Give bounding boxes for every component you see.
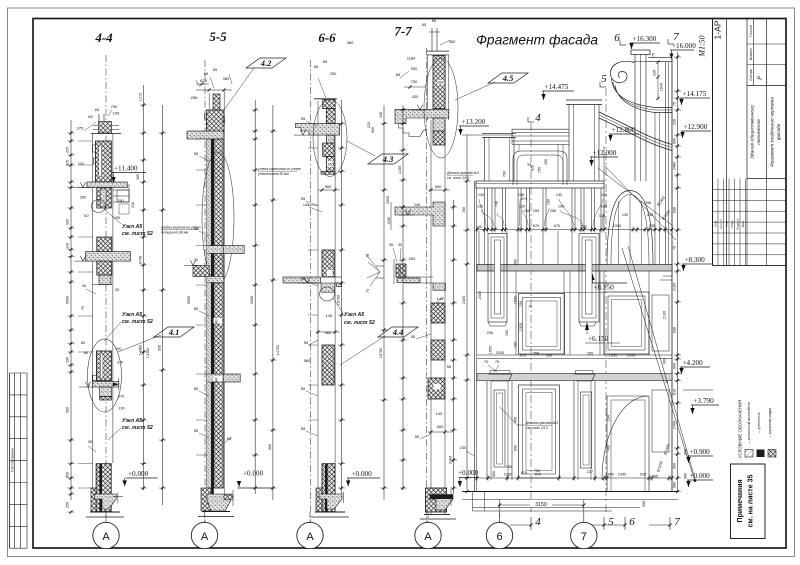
svg-text:560: 560 [325,330,332,335]
svg-text:518: 518 [640,473,646,477]
facade top cornice band at +16.000 [648,57,672,59]
section 4-4 wall face lines [92,133,94,512]
svg-text:5990: 5990 [66,296,70,304]
facade level +14.475 [542,90,574,92]
section 5-5 white box labels in wall [214,318,223,324]
svg-text:см. лист 52: см. лист 52 [122,425,153,431]
svg-text:65: 65 [95,107,100,112]
svg-text:748: 748 [495,201,499,207]
section 4-4 upper wall segment [96,141,112,182]
svg-text:900: 900 [492,471,496,477]
facade door swing arc [602,396,648,480]
svg-text:+14.475: +14.475 [545,83,569,91]
svg-text:30: 30 [194,258,198,262]
section 7-7 base line [424,514,450,516]
svg-text:370: 370 [118,395,124,399]
svg-text:300: 300 [268,444,272,450]
svg-text:335: 335 [158,345,162,351]
svg-text:560: 560 [437,424,444,429]
svg-text:259: 259 [533,209,539,213]
section 5-5 top dim lines [196,89,232,91]
svg-text:136: 136 [518,193,524,197]
section 7-7 parapet hatch [433,56,445,109]
svg-text:235: 235 [487,331,493,335]
svg-text:4: 4 [535,516,541,528]
svg-text:Узел А5: Узел А5 [122,224,142,230]
section 4-4 node circle upper [92,200,106,213]
svg-text:130: 130 [599,214,605,218]
section 7-7 top posts [431,28,433,51]
svg-text:55: 55 [194,151,199,156]
svg-text:Выполн: Выполн [749,48,753,60]
section 5-5 cornice block [207,110,225,132]
svg-text:160: 160 [66,219,70,225]
svg-text:4.1: 4.1 [168,327,180,337]
facade level +0.900 [687,455,713,457]
facade axis 7 top mark [668,43,674,45]
svg-text:Изм: Изм [714,221,718,227]
svg-text:5: 5 [601,73,607,85]
svg-text:628: 628 [200,78,207,83]
svg-text:2100: 2100 [673,283,677,291]
axis circle 6 [486,522,512,548]
svg-text:+12.000: +12.000 [593,149,617,157]
svg-text:670: 670 [533,224,539,228]
svg-text:5990: 5990 [187,296,191,304]
svg-text:35: 35 [82,284,86,288]
svg-text:75: 75 [484,360,488,364]
facade tier3 right panel [652,390,669,452]
facade narrow window left [488,234,507,323]
svg-text:55: 55 [301,196,306,201]
section 6-6 node circle [320,287,335,301]
section 6-6 detail rhomb 4.4 [378,327,418,337]
svg-text:1030: 1030 [609,354,617,358]
svg-text:65: 65 [88,114,93,119]
section 4-4 wall below node slab [100,387,112,397]
svg-text:760: 760 [462,207,466,213]
svg-text:900: 900 [684,449,688,455]
svg-text:7-7: 7-7 [394,24,412,39]
facade entablature beam [476,181,604,188]
section 7-7 wall face lines [430,120,432,514]
section 4-4 wall below middle slab [97,261,112,275]
facade level +14.175 [680,97,710,99]
svg-text:+4.200: +4.200 [683,359,704,367]
section 7-7 foundation [426,488,447,512]
section 5-5 top flags [196,80,200,87]
svg-text:670: 670 [535,473,541,477]
svg-text:Здание общественного: Здание общественного [750,105,756,159]
svg-text:180: 180 [601,205,607,209]
svg-text:190: 190 [115,347,121,351]
svg-text:237: 237 [587,470,593,474]
svg-text:утеплителя 50 мм: утеплителя 50 мм [257,172,289,176]
section 5-5 extension lines [196,138,207,140]
svg-text:35: 35 [389,243,393,247]
facade bottom dim row [477,477,672,479]
section 6-6 right dimension lines [341,100,343,494]
svg-text:6-6: 6-6 [318,30,336,45]
svg-text:Фрагмент кладочного чертежа: Фрагмент кладочного чертежа [770,97,775,167]
svg-text:700: 700 [514,342,518,348]
section 4-4 node wall segment [97,351,112,381]
section 6-6 slab level flags [298,282,313,284]
svg-text:3406: 3406 [250,296,254,304]
svg-text:75: 75 [673,102,677,106]
svg-text:670: 670 [554,224,560,228]
section 6-6 mid wall segment [322,250,334,277]
axis circle A section 5-5 [191,522,217,548]
svg-text:900: 900 [663,358,667,364]
svg-text:см. лист 52: см. лист 52 [344,320,375,326]
facade tier3 pilaster mid [573,381,575,480]
section 4-4 middle slab [86,252,131,262]
svg-text:625: 625 [66,160,70,166]
svg-text:610: 610 [673,389,677,395]
facade capital mid [574,374,596,381]
svg-text:— кирпичная кладка: — кирпичная кладка [768,408,772,439]
facade level +12.000 [590,156,618,158]
section 5-5 level mark +0.000 [238,487,274,489]
facade lower moulding curve [599,112,672,145]
section 5-5 wall column [207,139,211,488]
stamp revision table [713,188,787,190]
svg-text:см. на листе 35: см. на листе 35 [748,475,755,528]
svg-text:назначения: назначения [757,119,762,145]
section 5-5 centerline [204,60,206,522]
section 6-6 wall below cornice [326,135,334,143]
svg-text:438: 438 [379,112,383,118]
svg-text:795: 795 [649,224,655,228]
svg-text:55: 55 [411,334,416,339]
svg-text:2400: 2400 [673,421,677,429]
svg-text:1096: 1096 [613,224,621,228]
svg-text:340: 340 [131,202,135,208]
svg-text:2100: 2100 [663,311,667,319]
svg-text:670: 670 [520,354,526,358]
svg-text:Деталь фасада №3: Деталь фасада №3 [525,421,558,425]
facade tier2 window left-wide [519,294,565,355]
axis circle A section 4-4 [93,522,119,548]
svg-text:А: А [201,531,209,543]
svg-text:120: 120 [221,116,226,123]
svg-text:35: 35 [527,163,531,167]
svg-text:75: 75 [673,246,677,250]
section 6-6 detail rhomb 4.3 [368,154,408,164]
section 5-5 right dimension lines [254,100,256,494]
section 5-5 node ellipse [202,152,234,284]
svg-text:65: 65 [213,67,218,72]
svg-text:55: 55 [194,226,199,231]
facade level +3.790 [691,404,719,406]
facade axis 4 line [530,123,532,512]
svg-text:4: 4 [535,112,541,124]
facade cornice band one [477,265,672,272]
svg-text:А: А [306,531,314,543]
facade level +8.150 [591,282,627,284]
section 7-7 detail rhomb 4.5 [488,73,528,83]
section 5-5 mid slab right [207,246,223,254]
facade right dim chain [677,52,679,492]
section 4-4 balcony step lines [113,189,129,191]
svg-text:265: 265 [546,354,552,358]
facade left pillar [482,133,516,135]
facade plinth dimension 3150 [499,500,501,523]
section 7-7 top ellipse [424,58,458,158]
svg-text:150: 150 [544,159,548,165]
svg-text:65: 65 [323,59,328,64]
svg-text:+16.000: +16.000 [672,42,696,50]
svg-text:750: 750 [538,167,542,173]
svg-text:1212: 1212 [139,93,143,101]
facade axis 4 top mark [528,121,534,123]
svg-text:190: 190 [113,111,120,116]
facade tier3 thin window left [494,390,505,467]
svg-text:390: 390 [642,501,646,507]
svg-text:250: 250 [411,66,418,71]
svg-text:Лист: Лист [725,220,729,227]
svg-text:225: 225 [653,70,657,76]
facade radius leaders upper [598,168,673,226]
svg-text:690: 690 [514,445,518,451]
facade level +16.300 [630,42,660,44]
svg-text:1325: 1325 [519,323,523,331]
svg-text:9748: 9748 [139,256,143,264]
section 7-7 mid slab [395,202,445,226]
section 4-4 parapet cap [91,133,121,135]
axis circle 7 [571,522,597,548]
facade baluster dimension row [476,229,672,231]
svg-text:674: 674 [521,197,527,201]
svg-text:Фрагмент фасада: Фрагмент фасада [476,33,598,48]
svg-text:А: А [424,531,432,543]
svg-text:Примечания: Примечания [737,479,744,522]
svg-text:380: 380 [449,39,456,44]
svg-text:3150: 3150 [535,502,547,508]
svg-text:35: 35 [88,440,92,444]
svg-text:145: 145 [436,411,443,416]
svg-text:+0.000: +0.000 [243,470,264,478]
section 7-7 wall below cornice [433,118,445,131]
axis circle A section 7-7 [415,522,441,548]
svg-text:130: 130 [477,205,483,209]
svg-text:365: 365 [136,174,140,180]
section 7-7 wall segments [431,303,445,323]
svg-text:900: 900 [673,463,677,469]
section 6-6 plinth [316,488,322,512]
facade level +13.200 [459,125,489,127]
facade axis 5 line [605,88,607,512]
svg-text:55: 55 [304,340,309,345]
svg-text:+14.175: +14.175 [683,90,707,98]
svg-text:1095: 1095 [627,354,635,358]
svg-text:30: 30 [398,243,402,247]
svg-text:УСЛОВНЫЕ ОБОЗНАЧЕНИЯ: УСЛОВНЫЕ ОБОЗНАЧЕНИЯ [738,400,743,458]
svg-text:3194: 3194 [449,456,453,464]
svg-text:толщиной 88 мм: толщиной 88 мм [161,230,189,234]
section 4-4 left dimension chain [70,120,72,500]
svg-text:Узел А5: Узел А5 [344,312,364,318]
svg-text:750: 750 [411,79,418,84]
section 7-7 mid floor slab [404,276,433,278]
svg-text:16750: 16750 [337,295,341,306]
svg-text:250: 250 [66,502,70,508]
svg-text:55: 55 [194,428,199,433]
svg-text:120: 120 [78,162,84,166]
svg-text:+0.000: +0.000 [128,470,149,478]
svg-text:1545: 1545 [387,217,391,225]
svg-text:190: 190 [66,357,70,363]
section 6-6 centerline [310,60,312,522]
svg-text:150: 150 [547,199,551,205]
svg-text:Постов: Постов [749,25,753,36]
svg-text:+6.150: +6.150 [588,335,609,343]
svg-text:+8.300: +8.300 [685,256,706,264]
svg-text:900: 900 [371,127,375,133]
svg-text:265: 265 [550,209,556,213]
svg-text:129: 129 [519,205,525,209]
svg-text:Деталь фасада №3: Деталь фасада №3 [446,171,479,175]
svg-text:370: 370 [117,361,123,365]
svg-text:790: 790 [117,199,123,203]
facade right band step lines [663,275,672,277]
svg-text:900: 900 [66,407,70,413]
section 7-7 right dim chain [453,200,455,494]
svg-text:1180: 1180 [398,166,402,174]
svg-text:55: 55 [301,276,306,281]
facade tier3 thin window mid [581,392,592,468]
svg-text:250: 250 [330,71,337,76]
svg-text:4.5: 4.5 [502,73,514,83]
inter-section flag cluster [366,254,380,272]
svg-text:560: 560 [304,358,311,363]
svg-text:258: 258 [191,95,198,100]
section 6-6 wall face lines [317,101,319,512]
facade upper moulding curve [612,79,673,108]
section 5-5 footing [207,494,231,511]
section 6-6 lower wall segment [322,345,334,385]
section 4-4 level mark +0.000 [126,477,158,479]
svg-text:140: 140 [476,225,482,229]
svg-text:— утеплитель: — утеплитель [757,412,761,433]
facade sill lines [477,354,672,356]
facade arched niche [607,191,653,265]
section 4-4 detail rhomb 4.1 [154,327,194,337]
svg-text:6: 6 [496,531,502,543]
facade capital left [488,374,512,381]
svg-text:+0.000: +0.000 [352,470,373,478]
svg-text:65: 65 [422,22,427,27]
svg-text:Узел А5: Узел А5 [122,312,142,318]
svg-text:55: 55 [194,386,199,391]
facade tier2 wall verticals [515,271,517,355]
section 6-6 mid slab left [283,277,321,283]
svg-text:900: 900 [66,472,70,478]
svg-text:75: 75 [366,289,370,293]
svg-text:130: 130 [601,193,607,197]
svg-text:Состав: Состав [749,69,753,80]
svg-text:145: 145 [414,203,420,207]
svg-text:330: 330 [80,196,86,200]
svg-text:4-4: 4-4 [94,30,113,45]
svg-text:190: 190 [118,407,124,411]
svg-text:+0.900: +0.900 [690,448,711,456]
svg-text:1-АР: 1-АР [713,20,723,39]
facade level +16.000 [670,49,694,51]
section 6-6 cornice slab [295,124,339,136]
svg-text:226: 226 [673,119,677,125]
svg-text:1540: 1540 [660,83,664,91]
section 6-6 parapet cap [314,98,337,100]
svg-text:75: 75 [81,306,85,310]
svg-text:225: 225 [367,122,371,128]
svg-text:75: 75 [528,305,532,309]
facade rounded panel [513,151,567,185]
svg-text:930: 930 [673,207,677,213]
svg-text:55: 55 [301,426,306,431]
facade right edge wall [665,62,667,265]
facade wall lines below balusters [478,231,480,265]
section 4-4 lower wall segment [96,464,111,512]
section 4-4 middle wall segment [97,237,112,252]
facade ground lines [462,491,678,493]
facade narrow window mid [579,234,599,323]
svg-text:Nдок: Nдок [730,220,734,228]
svg-text:Дата: Дата [741,220,745,227]
svg-text:16750: 16750 [379,348,383,359]
section 5-5 lower slab right [207,374,223,382]
facade tier2 window right-wide [604,292,649,354]
svg-text:75: 75 [495,360,499,364]
svg-text:75: 75 [652,53,656,57]
facade tier2 window head line [477,292,604,294]
svg-text:4.3: 4.3 [382,154,394,164]
svg-text:6: 6 [629,516,635,528]
section 4-4 centerline [105,55,107,522]
title block vertical borders [712,19,714,266]
stamp header cells [746,19,748,179]
svg-text:1095: 1095 [618,473,626,477]
svg-text:7: 7 [674,516,680,528]
svg-text:130: 130 [556,193,562,197]
section 7-7 parapet cap [427,50,449,52]
svg-text:стена кирпичная со слоем: стена кирпичная со слоем [258,167,301,171]
svg-text:430: 430 [412,94,419,99]
section 6-6 footing [319,494,342,509]
section 4-4 wall below slab [97,188,112,209]
facade level +4.200 [680,366,710,368]
facade finial body [634,55,636,182]
section 4-4 base line [90,511,120,513]
svg-text:+0.000: +0.000 [690,472,711,480]
svg-text:Узел А5: Узел А5 [122,418,142,424]
svg-text:130: 130 [478,193,484,197]
section 7-7 centerline [426,48,428,522]
svg-text:900: 900 [673,138,677,144]
section 5-5 detail rhomb 4.2 [246,58,286,68]
svg-text:980: 980 [684,473,688,479]
svg-text:65: 65 [396,72,401,77]
svg-text:+16.300: +16.300 [633,35,657,43]
facade baluster fan leaders [479,199,486,226]
facade level +8.300 [682,263,712,265]
svg-text:см. лист 24.5: см. лист 24.5 [447,176,469,180]
svg-text:1030: 1030 [496,351,504,355]
section 5-5 top slab [187,131,223,139]
section 4-4 lower node ellipse [88,339,122,412]
svg-text:145: 145 [326,313,333,318]
